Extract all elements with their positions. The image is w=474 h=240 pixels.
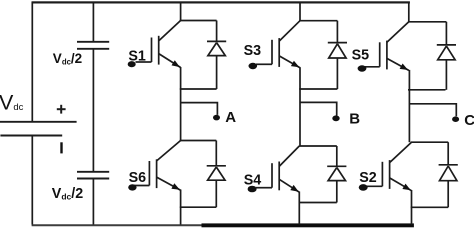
transistor S5 (IGBT) [364,22,409,71]
svg-text:S6: S6 [129,170,147,186]
wire phase A tap [181,103,218,115]
node A dot [213,115,220,121]
wire leg B bottom bracket [299,202,337,204]
node B dot [332,115,339,121]
wire leg C upper bracket to D5 [408,21,446,23]
transistor S4 (IGBT) [256,146,299,192]
wire leg A upper bracket to D1 [180,20,217,22]
capacitor C1 upper plate pair [77,42,109,49]
wire leg A lower bracket of upper pair [180,88,217,90]
gate terminal dot S2 [359,184,368,191]
wire phase C tap [409,104,456,116]
wire bottom DC- rail thick segment [202,223,414,227]
svg-text:S2: S2 [359,170,377,186]
diode D2 (S2 freewheel) [439,142,458,207]
svg-text:A: A [225,109,236,126]
svg-text:S5: S5 [352,48,370,64]
wire S4 emitter to bottom rail [298,192,300,225]
wire S6 emitter to bottom rail [180,190,182,225]
label - polarity (vertical tick) [60,142,62,153]
wire leg B upper bracket to D3 [299,20,337,22]
wire leg B lower bracket of upper pair [299,88,337,90]
wire S5 emitter down to midpoint [408,70,410,142]
label + polarity [57,105,66,114]
wire S1 emitter down to midpoint [180,67,182,141]
svg-text:Vdc: Vdc [0,90,24,114]
wire leg A bottom bracket [180,206,217,208]
transistor S3 (IGBT) [256,21,300,68]
gate terminal dot S4 [248,186,257,193]
diode D1 (S1 freewheel) [207,21,226,90]
capacitor C2 lower plate pair [77,172,109,179]
wire capacitor leg lower (C2 to rail) [92,179,94,224]
gate terminal dot S6 [128,184,136,190]
wire capacitor leg upper (rail to C1) [92,2,94,42]
svg-text:Vdc/2: Vdc/2 [53,51,82,66]
wire leg B from top rail [299,2,301,21]
wire leg A from top rail [180,2,182,21]
transistor S6 (IGBT) [133,141,180,191]
wire leg C from top rail [408,2,410,22]
gate terminal dot S1 [128,61,136,67]
wire battery negative to bottom rail [31,136,33,225]
diode D5 (S5 freewheel) [437,22,456,90]
transistor S1 (IGBT) [136,21,181,68]
wire leg C lower bracket of upper pair [408,89,446,91]
wire battery positive to top rail [31,2,33,121]
wire S2 emitter to bottom rail [411,190,413,225]
wire capacitor midpoint (C1 to C2) [92,50,94,172]
wire bottom DC- rail left segment [32,224,202,226]
wire leg C bottom bracket [411,206,449,208]
wire leg B upper bracket of lower pair [299,145,337,147]
gate terminal dot S3 [249,63,258,69]
svg-text:Vdc/2: Vdc/2 [52,186,83,202]
node C dot [452,116,459,122]
wire top DC+ rail [32,1,410,3]
svg-text:B: B [349,111,360,128]
gate terminal dot S5 [358,65,367,71]
diode D6 (S6 freewheel) [207,141,226,208]
battery V_dc positive plate (long) [0,121,77,123]
wire phase B tap [300,102,337,115]
wire leg A upper bracket of lower pair [180,140,217,142]
battery V_dc negative plate (short) [0,135,62,137]
wire S3 emitter down to midpoint [299,67,301,146]
diode D4 (S4 freewheel) [327,146,346,203]
svg-text:C: C [464,112,474,129]
wire leg C upper bracket of lower pair [411,141,449,143]
transistor S2 (IGBT) [366,142,411,191]
svg-text:S3: S3 [244,43,262,59]
diode D3 (S3 freewheel) [328,21,347,89]
